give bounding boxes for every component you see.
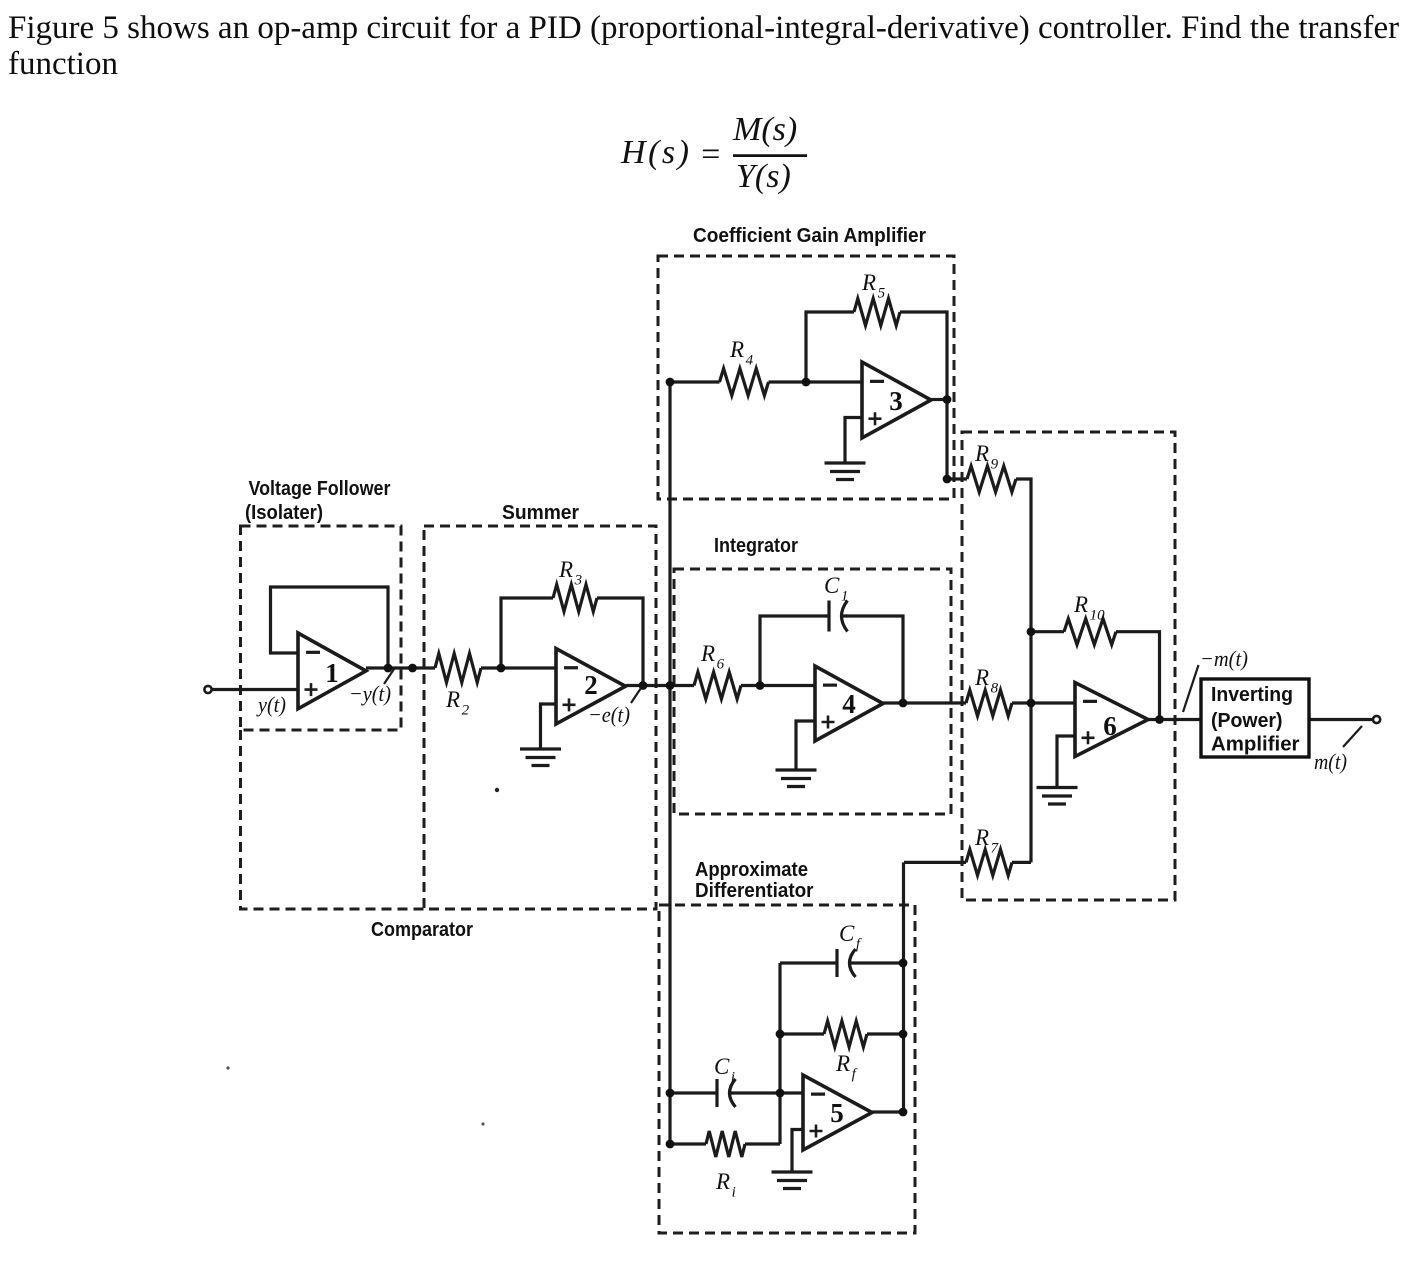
svg-text:−e(t): −e(t) bbox=[588, 702, 630, 727]
svg-text:Y(s): Y(s) bbox=[736, 158, 791, 195]
svg-text:M(s): M(s) bbox=[732, 111, 797, 148]
svg-text:R2: R2 bbox=[445, 687, 470, 719]
svg-text:=: = bbox=[699, 136, 722, 173]
svg-text:Cf: Cf bbox=[839, 921, 862, 953]
svg-text:R4: R4 bbox=[729, 337, 754, 369]
svg-text:1: 1 bbox=[325, 658, 339, 688]
svg-text:Rf: Rf bbox=[835, 1051, 858, 1083]
svg-text:3: 3 bbox=[889, 386, 903, 416]
svg-text:Comparator: Comparator bbox=[371, 919, 473, 941]
svg-text:Voltage Follower: Voltage Follower bbox=[249, 478, 391, 500]
svg-text:6: 6 bbox=[1103, 711, 1117, 741]
svg-text:H(s): H(s) bbox=[620, 134, 689, 171]
svg-text:(Isolater): (Isolater) bbox=[245, 502, 323, 524]
svg-text:Differentiator: Differentiator bbox=[695, 880, 814, 902]
svg-text:2: 2 bbox=[584, 670, 598, 700]
svg-text:R10: R10 bbox=[1073, 592, 1105, 624]
svg-text:−y(t): −y(t) bbox=[349, 681, 391, 706]
svg-text:Ri: Ri bbox=[715, 1169, 736, 1201]
svg-text:Approximate: Approximate bbox=[695, 859, 808, 881]
svg-text:C1: C1 bbox=[824, 573, 848, 605]
svg-text:Amplifier: Amplifier bbox=[1211, 734, 1300, 756]
svg-text:R6: R6 bbox=[700, 641, 725, 673]
svg-text:Summer: Summer bbox=[502, 502, 579, 524]
svg-text:Coefficient Gain Amplifier: Coefficient Gain Amplifier bbox=[693, 225, 926, 247]
svg-text:5: 5 bbox=[830, 1098, 844, 1128]
svg-text:y(t): y(t) bbox=[256, 692, 286, 717]
svg-text:4: 4 bbox=[842, 689, 856, 719]
svg-text:m(t): m(t) bbox=[1314, 749, 1347, 774]
svg-text:Inverting: Inverting bbox=[1211, 684, 1293, 706]
svg-text:(Power): (Power) bbox=[1211, 710, 1283, 732]
svg-text:Integrator: Integrator bbox=[714, 535, 798, 557]
svg-text:−m(t): −m(t) bbox=[1200, 646, 1248, 671]
